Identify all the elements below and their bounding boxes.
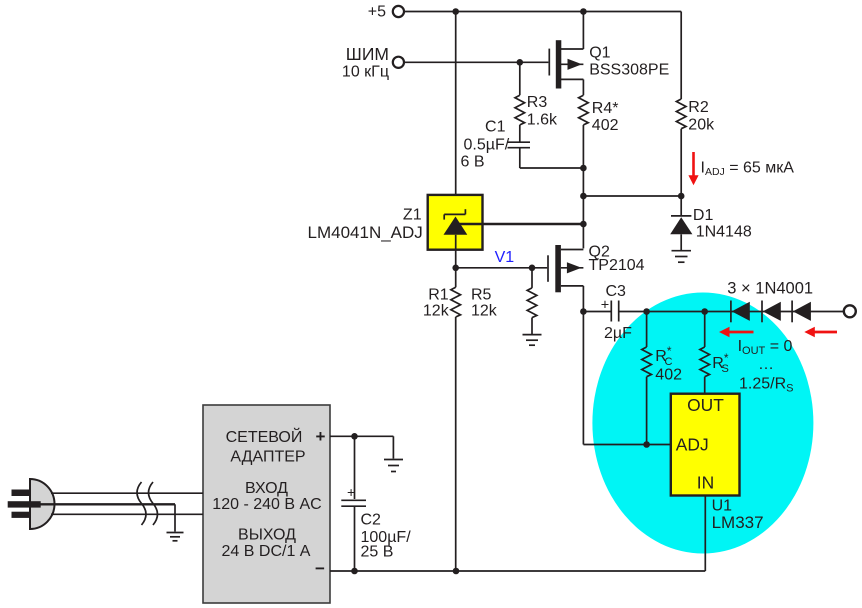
svg-text:C3: C3 xyxy=(606,283,627,300)
svg-text:R3: R3 xyxy=(527,94,548,111)
svg-text:25 В: 25 В xyxy=(361,543,394,560)
wire RS branch xyxy=(704,312,706,394)
svg-text:ВЫХОД: ВЫХОД xyxy=(238,526,296,543)
capacitor C2 xyxy=(341,484,411,560)
ground (adapter plus rail) xyxy=(384,460,403,472)
svg-text:СЕТЕВОЙ: СЕТЕВОЙ xyxy=(226,427,303,446)
wire R2 to D1 xyxy=(680,129,682,215)
cable break symbol xyxy=(137,482,158,525)
wire C2 branch xyxy=(354,436,356,571)
wire V1 node xyxy=(456,267,548,269)
svg-text:C1: C1 xyxy=(485,119,506,136)
svg-text:1.6k: 1.6k xyxy=(527,112,558,129)
svg-text:+: + xyxy=(347,484,355,500)
svg-text:R2: R2 xyxy=(688,99,709,116)
resistor RS* xyxy=(700,347,729,377)
svg-text:+: + xyxy=(601,298,609,314)
svg-text:6 В: 6 В xyxy=(460,154,484,171)
junction PWM / R3 xyxy=(517,59,524,66)
resistor RC* 402 xyxy=(642,344,682,384)
shunt reference Z1 LM4041N_ADJ xyxy=(308,195,483,268)
junction +5 rail / Z1 column xyxy=(452,8,459,15)
wire R3 branch xyxy=(519,62,521,141)
transistor Q1 BSS308PE xyxy=(549,40,669,88)
svg-text:ВХОД: ВХОД xyxy=(245,480,288,497)
svg-text:ШИМ: ШИМ xyxy=(346,44,389,64)
AC plug P1 xyxy=(8,479,55,529)
svg-text:Q1: Q1 xyxy=(589,45,610,62)
svg-text:402: 402 xyxy=(655,367,682,384)
terminal output xyxy=(844,305,856,317)
svg-text:LM4041N_ADJ: LM4041N_ADJ xyxy=(308,223,423,242)
wire Z1 feedback to Q2 node xyxy=(459,223,583,225)
svg-text:…: … xyxy=(758,356,774,373)
svg-text:BSS308PE: BSS308PE xyxy=(589,62,669,79)
regulator U1 LM337 xyxy=(671,394,764,532)
ground (V1 divider) xyxy=(523,335,542,346)
capacitor C1 xyxy=(460,119,530,171)
resistor R5 (V1 to ground) xyxy=(527,288,537,318)
svg-text:+: + xyxy=(316,427,326,446)
junction Z1 FB / Q2 source xyxy=(580,221,587,228)
svg-text:АДАПТЕР: АДАПТЕР xyxy=(230,448,305,465)
svg-text:20k: 20k xyxy=(688,117,715,134)
wire PWM to Q1 gate xyxy=(404,61,548,63)
svg-text:D1: D1 xyxy=(693,207,714,224)
junction RS / output wire xyxy=(701,308,708,315)
capacitor C3 2uF xyxy=(583,283,632,342)
svg-text:R*S: R*S xyxy=(712,351,729,375)
wire adapter plus output xyxy=(330,436,393,458)
svg-text:R5: R5 xyxy=(471,287,492,304)
svg-text:U1: U1 xyxy=(712,498,733,515)
wire Q2 source down to C3 node xyxy=(582,286,584,312)
svg-text:1N4148: 1N4148 xyxy=(696,224,752,241)
svg-text:402: 402 xyxy=(592,117,619,134)
svg-text:C2: C2 xyxy=(361,512,382,529)
wire C1 to R4 node xyxy=(520,148,584,168)
junction Q2 drain / C3 xyxy=(580,308,587,315)
resistor R3 1.6k xyxy=(515,94,558,129)
svg-text:3 × 1N4001: 3 × 1N4001 xyxy=(727,280,813,298)
resistor R4* 402 xyxy=(579,95,619,134)
junction D1 / R2 xyxy=(678,193,685,200)
svg-text:R1: R1 xyxy=(428,287,449,304)
svg-text:IN: IN xyxy=(697,473,714,493)
svg-text:10 кГц: 10 кГц xyxy=(342,64,389,81)
svg-text:−: − xyxy=(315,559,325,578)
wire Q1 drain column xyxy=(582,79,584,248)
wire +5 rail xyxy=(404,12,681,100)
svg-text:12k: 12k xyxy=(471,303,498,320)
junction V1 / divider resistor xyxy=(529,265,536,272)
svg-text:1.25/RS: 1.25/RS xyxy=(739,376,793,395)
wire Q2 node to ADJ corner xyxy=(582,312,584,445)
wire RC branch xyxy=(646,312,648,445)
svg-text:120 - 240 В AC: 120 - 240 В AC xyxy=(212,496,321,513)
terminal +5 xyxy=(368,3,404,20)
junction adapter plus / C2 xyxy=(351,433,358,440)
transistor Q2 TP2104 xyxy=(548,244,645,293)
wire plug to adapter (3 leads) xyxy=(40,493,203,531)
svg-text:R*C: R*C xyxy=(655,344,672,368)
junction RC / output wire xyxy=(643,308,650,315)
label IOUT value xyxy=(738,338,794,395)
wire R1 branch xyxy=(455,268,457,571)
svg-text:Z1: Z1 xyxy=(403,207,422,224)
wire bottom rail (adapter minus to U1 IN) xyxy=(330,496,705,572)
svg-text:0.5µF/: 0.5µF/ xyxy=(464,137,510,154)
terminal PWM input xyxy=(342,44,404,81)
junction R1 / bottom rail xyxy=(453,568,460,575)
wire C3 to output diodes xyxy=(619,311,844,313)
wire V1 to ground resistor xyxy=(531,268,533,334)
diodes 3 x 1N4001 xyxy=(727,280,813,323)
diode D1 1N4148 xyxy=(670,207,752,250)
wire Q1 source to +5 xyxy=(582,12,584,50)
current arrow IOUT (inner) xyxy=(719,327,754,337)
power adapter box xyxy=(203,405,330,603)
current arrow IOUT (outer) xyxy=(804,327,837,337)
svg-text:OUT: OUT xyxy=(687,395,724,415)
svg-text:TP2104: TP2104 xyxy=(589,257,645,274)
svg-text:LM337: LM337 xyxy=(712,513,764,532)
ground (plug earth) xyxy=(167,533,184,541)
svg-text:+5: +5 xyxy=(368,3,386,20)
junction +5 rail / Q1 source xyxy=(580,8,587,15)
current arrow IADJ xyxy=(688,152,794,185)
svg-text:12k: 12k xyxy=(423,303,450,320)
resistor R2 20k xyxy=(676,99,715,134)
wire +5 to Z1 cathode xyxy=(455,12,457,215)
junction C2 / bottom rail xyxy=(351,568,358,575)
junction RC / ADJ wire xyxy=(643,441,650,448)
svg-text:V1: V1 xyxy=(495,249,515,266)
ground (D1 anode) xyxy=(672,251,692,263)
highlight ellipse around U1 regulator xyxy=(592,293,813,554)
wire ADJ xyxy=(583,444,670,446)
svg-text:ADJ: ADJ xyxy=(676,435,709,455)
wire R4 node to D1 node xyxy=(583,195,681,197)
svg-text:2µF: 2µF xyxy=(604,325,632,342)
junction C1 / R4 node xyxy=(580,165,587,172)
resistor R1 12k / R5 12k xyxy=(423,287,498,320)
svg-text:24 В DC/1 А: 24 В DC/1 А xyxy=(222,543,311,560)
junction R4 / D1 wire xyxy=(580,193,587,200)
svg-text:R4*: R4* xyxy=(592,100,619,117)
junction node V1 / R1 xyxy=(452,265,459,272)
